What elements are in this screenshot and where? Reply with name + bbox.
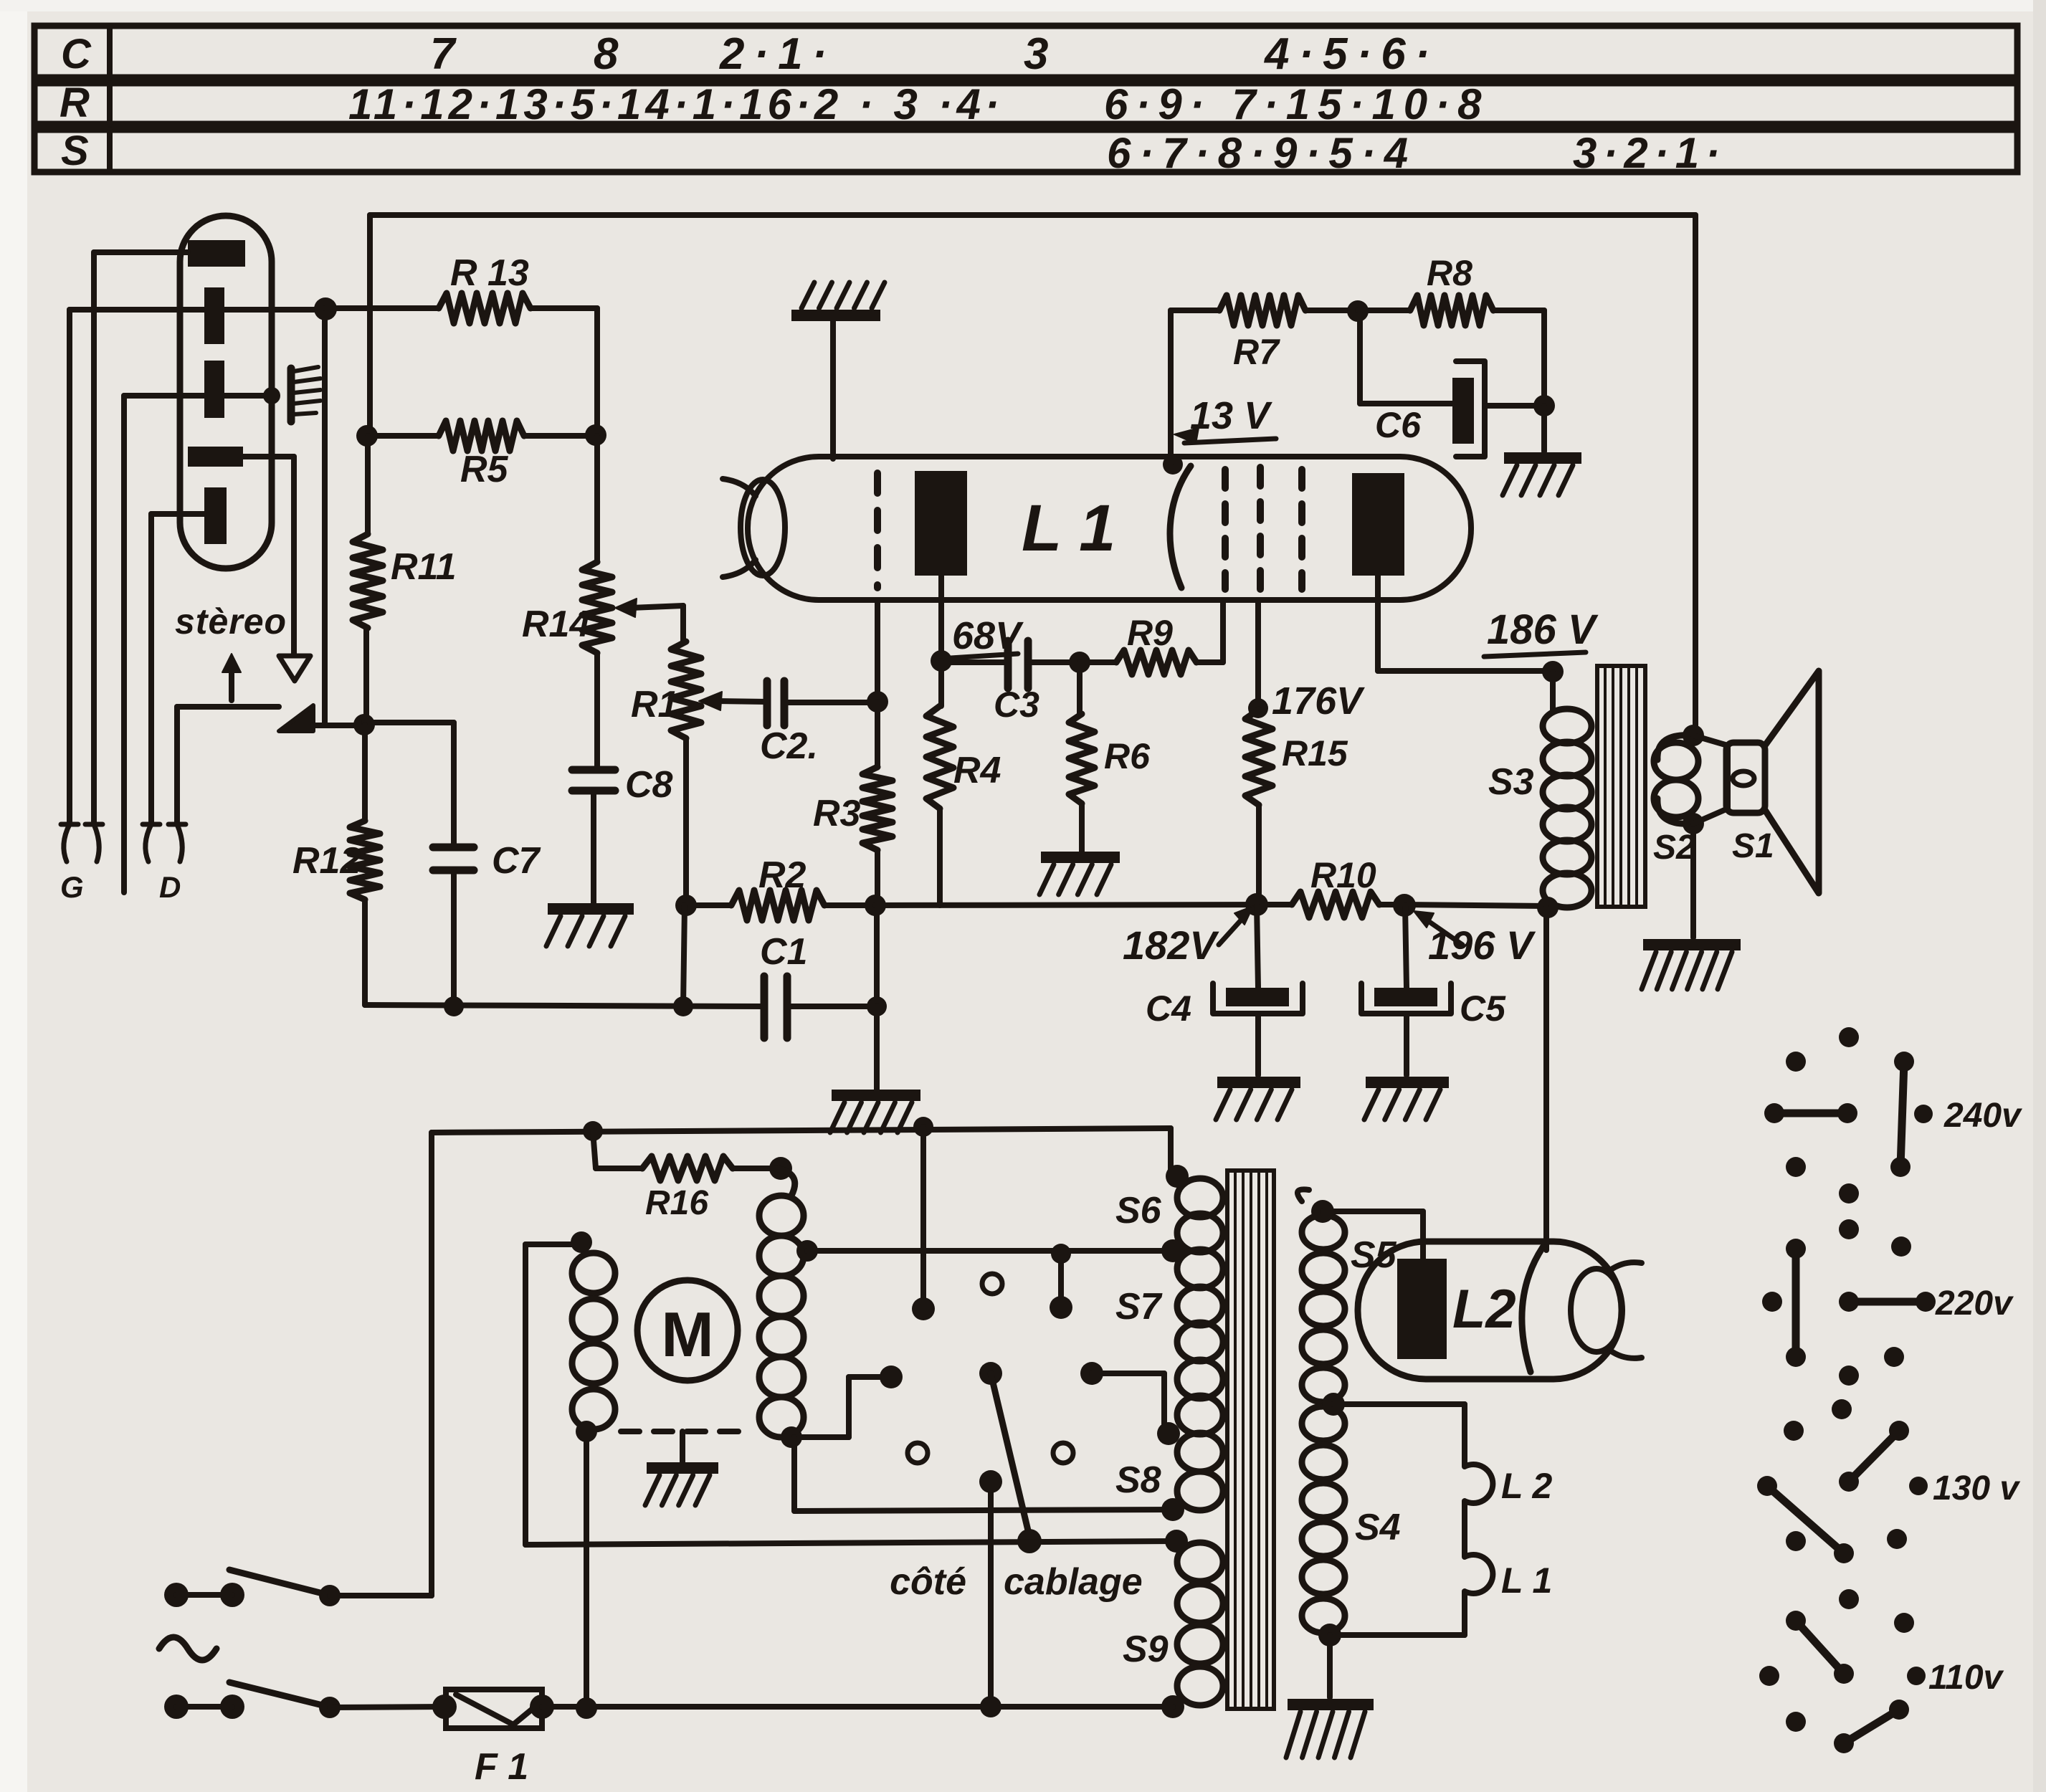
svg-text:R1: R1 <box>631 684 678 725</box>
svg-text:R14: R14 <box>522 604 590 645</box>
label F1 <box>475 1746 528 1788</box>
wire R8 right drop <box>1541 310 1547 406</box>
selector 110v dots <box>1759 1589 1926 1732</box>
svg-text:R2: R2 <box>758 854 806 896</box>
svg-text:C7: C7 <box>492 840 541 882</box>
svg-text:L 2: L 2 <box>1501 1466 1553 1506</box>
svg-text:110v: 110v <box>1928 1659 2004 1697</box>
contact bar B <box>1050 1244 1072 1319</box>
label S2 <box>1653 829 1695 867</box>
svg-text:240v: 240v <box>1943 1097 2022 1135</box>
label C4 <box>1146 988 1191 1029</box>
stereo switch closed contact <box>279 705 313 731</box>
contact dot lever top <box>979 1362 1002 1385</box>
wire D prong to switch common line <box>177 707 279 824</box>
tuner connection table frame <box>34 26 2017 172</box>
winding S9 <box>1177 1543 1223 1705</box>
wire S2 to ground <box>1690 824 1696 938</box>
label R5 <box>460 449 509 490</box>
label stereo <box>175 601 287 642</box>
label 220v <box>1935 1285 2014 1322</box>
tube L1 grid 1 <box>874 473 881 588</box>
tube L2 filament hooks <box>1610 1262 1642 1358</box>
resistor R5 <box>367 421 596 451</box>
tube L2 envelope <box>1358 1241 1622 1379</box>
svg-text:C: C <box>61 31 92 77</box>
speaker S1 cone <box>1765 671 1819 893</box>
svg-text:C6: C6 <box>1375 405 1422 445</box>
node S5 top <box>1311 1200 1334 1223</box>
node S4 bottom <box>1318 1624 1341 1646</box>
node S4 tap <box>1322 1393 1345 1416</box>
label C5 <box>1460 988 1506 1029</box>
wire cartridge pin5 to D <box>151 514 204 824</box>
stereo cartridge envelope <box>180 216 272 568</box>
node mains rail motor <box>576 1697 597 1719</box>
label C8 <box>625 764 673 806</box>
resistor R7 <box>1219 295 1358 325</box>
winding S2 <box>1654 735 1698 824</box>
label R11 <box>391 546 457 588</box>
label 130v <box>1933 1469 2020 1507</box>
wire C1 right to ground <box>874 1006 880 1090</box>
tube L2 pinch <box>1571 1269 1622 1352</box>
stereo switch open contact <box>279 656 310 681</box>
wire S4 to ground <box>1327 1635 1333 1697</box>
node 68V <box>931 650 952 672</box>
tube L2 anode <box>1397 1259 1447 1359</box>
wire step to motor coil <box>794 1377 885 1437</box>
label R1 <box>631 684 678 725</box>
wire top HT rail <box>370 212 1695 218</box>
node C1 right <box>867 996 887 1016</box>
tube L1 pinch <box>741 480 785 576</box>
wire S8 bottom link <box>794 1437 1173 1511</box>
label R4 <box>953 750 1001 791</box>
svg-text:6·7·8·9·5·4: 6·7·8·9·5·4 <box>1107 129 1417 177</box>
mains AC symbol <box>159 1637 217 1660</box>
label C6 <box>1375 405 1422 445</box>
svg-text:R7: R7 <box>1233 332 1280 372</box>
svg-text:6·9· 7·15·10·8: 6·9· 7·15·10·8 <box>1104 80 1490 128</box>
wire HT rail to R10 <box>875 905 1292 905</box>
wire S5 to L2 anode <box>1323 1211 1423 1260</box>
winding S5 <box>1298 1189 1345 1402</box>
node power rail switch tap <box>913 1117 933 1137</box>
label R16 <box>645 1184 708 1222</box>
label L2 <box>1452 1279 1516 1340</box>
winding S3 <box>1543 672 1591 907</box>
label R10 <box>1310 855 1376 895</box>
label R9 <box>1127 613 1173 653</box>
svg-text:cablage: cablage <box>1004 1561 1143 1603</box>
ground under motor <box>645 1468 718 1505</box>
wire motor bottom to mains rail <box>584 1431 589 1707</box>
resistor R16 <box>593 1131 774 1181</box>
ground under R6 <box>1039 857 1120 895</box>
wire cartridge pin4 to mono contact <box>243 457 294 654</box>
svg-text:R8: R8 <box>1427 253 1472 293</box>
label R7 <box>1233 332 1280 372</box>
node S7 S8 tap <box>1157 1422 1180 1445</box>
svg-text:L2: L2 <box>1452 1279 1516 1340</box>
label C7 <box>492 840 541 882</box>
node S8 bottom tap <box>1161 1498 1184 1521</box>
mains switch pole 2 <box>164 1682 444 1719</box>
svg-text:stèreo: stèreo <box>175 601 287 642</box>
svg-text:130 v: 130 v <box>1933 1469 2020 1507</box>
table row label S <box>61 128 89 174</box>
wire G jack to R13 line <box>70 310 325 824</box>
svg-text:S6: S6 <box>1115 1190 1162 1231</box>
label 186V <box>1484 606 1599 657</box>
svg-text:7: 7 <box>430 29 457 79</box>
node motor coil top <box>571 1231 592 1253</box>
heater circuit L2 L1 <box>1330 1404 1493 1635</box>
svg-text:G: G <box>60 870 84 904</box>
svg-text:R12: R12 <box>292 840 361 882</box>
wire L1 grid shield to ground <box>830 320 836 459</box>
tube L1 anode 1 <box>915 471 967 576</box>
core power transformer <box>1227 1171 1274 1709</box>
wire speaker feed <box>1693 215 1698 735</box>
svg-text:3·2·1·: 3·2·1· <box>1573 129 1726 177</box>
selector 110v link a <box>1786 1611 1854 1684</box>
winding S8 <box>1177 1433 1223 1510</box>
node 196V <box>1393 894 1416 917</box>
wire anode2 to S3 <box>1378 576 1553 671</box>
svg-text:182V: 182V <box>1123 923 1219 968</box>
jack D <box>143 824 186 862</box>
svg-text:R6: R6 <box>1104 736 1151 776</box>
label 13V <box>1174 394 1276 444</box>
svg-text:C1: C1 <box>760 931 807 973</box>
R14 wiper arrow <box>615 599 683 642</box>
label R13 <box>450 252 529 294</box>
svg-text:3: 3 <box>1024 29 1048 79</box>
node S6 S7 tap <box>1161 1239 1184 1262</box>
wire chassis rail3 <box>525 1541 1176 1545</box>
table row C values <box>430 29 1439 79</box>
wire L1 top to R7 <box>1171 310 1219 464</box>
svg-text:S1: S1 <box>1732 827 1774 865</box>
label S5 <box>1351 1234 1397 1276</box>
svg-text:S9: S9 <box>1123 1629 1169 1670</box>
label S7 <box>1115 1286 1163 1328</box>
selector 220v dots <box>1762 1219 1911 1386</box>
node C2 R3 junction <box>867 691 888 712</box>
selector 240v dots <box>1786 1027 1933 1204</box>
resistor R8 <box>1358 295 1544 325</box>
label R14 <box>522 604 590 645</box>
svg-text:C8: C8 <box>625 764 673 806</box>
resistor R4 <box>926 661 953 905</box>
svg-text:S4: S4 <box>1355 1507 1401 1548</box>
wire C6 to ground <box>1541 406 1547 452</box>
ground under C4 <box>1216 1082 1300 1120</box>
label 240v <box>1943 1097 2022 1135</box>
autotransformer winding <box>759 1168 804 1437</box>
speaker S1 driver <box>1693 735 1765 824</box>
contact dot lever bottom <box>1017 1529 1042 1553</box>
label L1 <box>1022 492 1115 565</box>
svg-text:S2: S2 <box>1653 829 1695 867</box>
tube L1 grid 3 <box>1257 467 1264 591</box>
label S3 <box>1488 761 1534 803</box>
svg-text:C2.: C2. <box>760 725 818 767</box>
resistor R6 <box>1069 662 1095 852</box>
wire bottom return <box>365 1005 877 1006</box>
capacitor C6 <box>1360 313 1544 457</box>
label 176V <box>1272 680 1365 723</box>
resistor R9 <box>1080 600 1223 675</box>
svg-text:R9: R9 <box>1127 613 1173 653</box>
node R11 R12 junction <box>353 714 375 735</box>
wire anode1 to 68V node <box>938 576 944 660</box>
label S9 <box>1123 1629 1169 1670</box>
potentiometer R1 <box>671 642 701 905</box>
motor M <box>637 1280 738 1381</box>
svg-text:R10: R10 <box>1310 855 1376 895</box>
contact dot E <box>979 1470 1002 1493</box>
wire HT rail left drop <box>367 215 373 436</box>
label R12 <box>292 840 361 882</box>
node R2 right <box>865 895 886 916</box>
resistor R10 <box>1292 892 1547 918</box>
label heater L1 <box>1501 1560 1552 1601</box>
table row label C <box>61 31 92 77</box>
svg-text:S3: S3 <box>1488 761 1534 803</box>
selector 220v link h <box>1839 1292 1936 1312</box>
label cote cablage <box>890 1561 1143 1603</box>
node C3 R9 junction <box>1069 652 1090 673</box>
svg-text:R: R <box>60 80 90 126</box>
svg-text:186 V: 186 V <box>1487 606 1599 653</box>
wire screen grid to R15 <box>1255 600 1261 707</box>
stereo switch up arrow <box>222 654 241 700</box>
svg-text:220v: 220v <box>1935 1285 2014 1322</box>
ground under S2 <box>1642 945 1741 989</box>
contact ring 1 <box>982 1274 1002 1294</box>
label C3 <box>994 685 1039 725</box>
node C7 bottom <box>444 996 464 1016</box>
ground above tube L1 <box>791 282 885 315</box>
contact ring 3 <box>1053 1443 1073 1463</box>
capacitor C7 <box>433 847 474 1006</box>
svg-text:R4: R4 <box>953 750 1001 791</box>
svg-text:F 1: F 1 <box>475 1746 528 1788</box>
selector 240v link h <box>1764 1103 1857 1123</box>
label C1 <box>760 931 807 973</box>
svg-text:S7: S7 <box>1115 1286 1163 1328</box>
core S3 <box>1597 666 1645 907</box>
node R16 right <box>769 1157 792 1180</box>
label S4 <box>1355 1507 1401 1548</box>
wire cartridge top pin to G <box>94 252 188 824</box>
capacitor C2 <box>767 681 877 725</box>
resistor R15 <box>1245 710 1272 905</box>
node R5 left <box>356 425 378 447</box>
wire motor frame <box>525 1244 581 1545</box>
capacitor C3 <box>941 641 1080 688</box>
winding S7 <box>1177 1249 1223 1434</box>
node S3 bottom <box>1537 897 1559 918</box>
node S2 bottom <box>1683 813 1704 834</box>
ground under R3 C1 <box>830 1095 920 1133</box>
label 182V <box>1123 906 1253 968</box>
tube L1 grid 2 <box>1222 470 1229 589</box>
cartridge pin bar 3 <box>204 361 224 418</box>
svg-text:4·5·6·: 4·5·6· <box>1263 29 1439 79</box>
label 68V <box>951 614 1024 658</box>
resistor R13 <box>325 293 597 436</box>
ground under C6 <box>1503 458 1581 495</box>
label R3 <box>813 793 861 834</box>
selector 130v link a <box>1839 1421 1909 1492</box>
node motor coil bottom <box>576 1421 597 1442</box>
potentiometer R14 <box>582 436 612 770</box>
svg-text:2·1·: 2·1· <box>719 29 836 79</box>
svg-text:13 V: 13 V <box>1190 394 1272 437</box>
cartridge pin bar 2 <box>204 287 224 344</box>
svg-text:68V: 68V <box>952 614 1024 657</box>
wire chassis comb <box>124 396 267 892</box>
svg-text:C3: C3 <box>994 685 1039 725</box>
label D <box>159 870 181 904</box>
label C2 <box>760 725 818 767</box>
table row S values <box>1107 129 1726 177</box>
table row R values <box>348 80 1490 128</box>
capacitor C5 <box>1361 905 1451 1075</box>
node S2 top <box>1683 725 1704 746</box>
label 196V <box>1414 911 1536 968</box>
resistor R2 <box>686 890 875 920</box>
selector 130v link b <box>1757 1476 1854 1563</box>
node S6 top <box>1166 1165 1189 1188</box>
svg-text:côté: côté <box>890 1561 966 1603</box>
resistor R12 <box>350 725 380 1005</box>
label R8 <box>1427 253 1472 293</box>
node power rail R16 tap <box>583 1121 603 1141</box>
node tube L1 top <box>1163 454 1183 475</box>
tube L1 envelope <box>748 457 1471 600</box>
svg-text:R15: R15 <box>1282 733 1348 773</box>
svg-text:R11: R11 <box>391 546 457 588</box>
svg-text:R3: R3 <box>813 793 861 834</box>
label G <box>60 870 84 904</box>
svg-text:C4: C4 <box>1146 988 1191 1029</box>
svg-text:C5: C5 <box>1460 988 1506 1029</box>
wire switch drop from top rail <box>920 1127 926 1309</box>
svg-text:8: 8 <box>594 29 619 79</box>
ground under C8 <box>546 909 634 946</box>
tube L2 cathode <box>1522 1247 1543 1372</box>
label 110v <box>1928 1659 2004 1697</box>
resistor R11 <box>353 436 383 725</box>
node R7 R8 junction <box>1347 300 1369 322</box>
wire junction to C7 <box>364 723 454 844</box>
node mains rail cablage <box>980 1696 1001 1717</box>
svg-text:11·12·13·5·14·1·16·2 · 3 ·4·: 11·12·13·5·14·1·16·2 · 3 ·4· <box>348 80 1004 128</box>
label R15 <box>1282 733 1348 773</box>
selector 240v link v <box>1890 1052 1914 1177</box>
node 182V <box>1245 893 1268 916</box>
node R2 left <box>675 895 697 916</box>
node S3 top <box>1542 661 1564 682</box>
svg-text:D: D <box>159 870 181 904</box>
wire power rail top <box>432 1128 1171 1596</box>
svg-text:R 13: R 13 <box>450 252 529 294</box>
label S8 <box>1115 1459 1161 1501</box>
svg-text:S: S <box>61 128 89 174</box>
node auto coil tap <box>796 1240 818 1262</box>
winding S4 <box>1302 1406 1345 1633</box>
svg-text:L 1: L 1 <box>1022 492 1115 565</box>
svg-text:176V: 176V <box>1272 680 1365 723</box>
wire cote cablage drop <box>988 1482 994 1707</box>
contact dot A <box>912 1297 935 1320</box>
selector 130v dots <box>1784 1399 1928 1551</box>
label S1 <box>1732 827 1774 865</box>
node C6 right <box>1533 395 1555 416</box>
motor winding left <box>572 1253 615 1429</box>
chassis comb symbol <box>263 367 320 421</box>
fuse F1 <box>432 1689 554 1728</box>
svg-text:R5: R5 <box>460 449 509 490</box>
contact ring 2 <box>908 1443 928 1463</box>
node cartridge output <box>314 297 337 320</box>
tube L1 cathode 2 <box>1170 466 1191 588</box>
selector 220v link v <box>1786 1239 1806 1367</box>
label S6 <box>1115 1190 1162 1231</box>
svg-text:M: M <box>661 1299 713 1370</box>
node S9 top tap <box>1165 1530 1188 1553</box>
svg-text:R16: R16 <box>645 1184 708 1222</box>
selector 110v link b <box>1834 1700 1909 1753</box>
ground under C5 <box>1364 1082 1449 1120</box>
resistor R3 <box>862 702 893 905</box>
wire S3 bottom to L2 cathode <box>1543 907 1549 1250</box>
node S9 bottom <box>1161 1695 1184 1718</box>
cartridge pin bar 5 <box>204 487 227 544</box>
cartridge pin bar 1 <box>188 240 245 267</box>
capacitor C1 <box>683 905 877 1038</box>
label R2 <box>758 854 806 896</box>
node R5 right <box>585 424 606 446</box>
tube L1 grid 4 <box>1298 470 1305 589</box>
label heater L2 <box>1501 1466 1553 1506</box>
node auto coil bottom <box>781 1426 802 1448</box>
ground under S4 <box>1286 1705 1374 1758</box>
winding S6 <box>1177 1178 1223 1252</box>
jack G <box>61 824 103 862</box>
capacitor C4 <box>1213 905 1303 1075</box>
wire grid1 to C2 <box>875 600 880 702</box>
R1 wiper arrow <box>699 692 767 710</box>
motor ground dashed <box>621 1431 740 1462</box>
svg-text:L 1: L 1 <box>1501 1560 1552 1601</box>
wire mains bottom rail <box>542 1704 1173 1710</box>
mains switch pole 1 <box>164 1570 432 1607</box>
cartridge pin bar 4 <box>188 447 243 467</box>
tube L1 anode 2 <box>1352 473 1404 576</box>
selector lever <box>991 1373 1031 1543</box>
wire switch common vertical <box>313 310 364 725</box>
contact dot C <box>880 1366 903 1388</box>
label R6 <box>1104 736 1151 776</box>
svg-text:S8: S8 <box>1115 1459 1161 1501</box>
node C1 left <box>673 996 693 1016</box>
